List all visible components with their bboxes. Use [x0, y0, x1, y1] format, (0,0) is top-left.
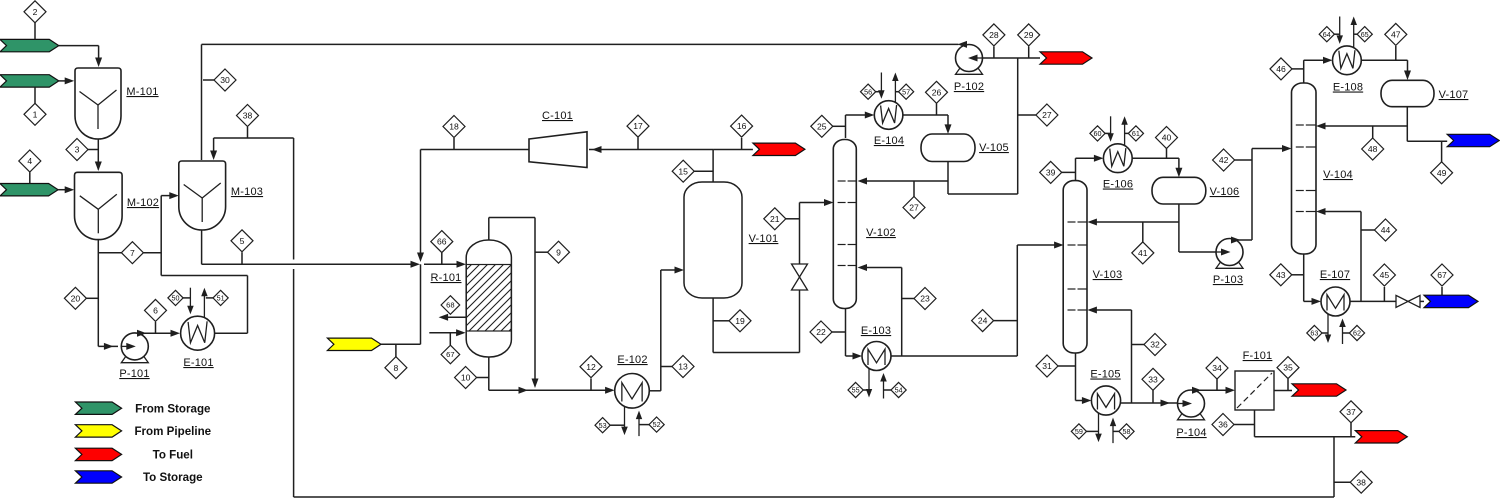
svg-text:E-105: E-105 [1090, 369, 1120, 381]
svg-text:63: 63 [1310, 329, 1318, 338]
pipe reflux to V-102 [862, 180, 948, 182]
stub diamond 51 [206, 297, 213, 299]
node stream-tag 40 [1156, 127, 1178, 149]
pipe V-101 bottoms run [713, 352, 799, 354]
svg-text:37: 37 [1346, 407, 1356, 417]
svg-text:39: 39 [1046, 167, 1056, 177]
node stream-tag 57 [899, 84, 914, 99]
compressor C-101 [529, 132, 587, 168]
svg-text:34: 34 [1212, 363, 1222, 373]
svg-text:E-108: E-108 [1333, 82, 1363, 94]
svg-text:P-104: P-104 [1176, 427, 1206, 439]
node stream-tag 60 [1090, 126, 1105, 141]
node stream-tag 47 [1385, 23, 1407, 45]
svg-text:3: 3 [75, 145, 80, 155]
svg-text:31: 31 [1042, 361, 1052, 371]
node stream-tag 64 [1319, 27, 1334, 42]
svg-text:65: 65 [1361, 30, 1369, 39]
node stream-tag 49 [1431, 162, 1453, 184]
svg-text:R-101: R-101 [431, 272, 462, 284]
stub diamond 20 [86, 297, 98, 299]
node stream-tag 12 [580, 356, 602, 378]
pipe valve riser lower [799, 290, 801, 353]
node stream-tag 42 [1213, 149, 1235, 171]
pipe stream2 to M-101 [59, 45, 99, 47]
mixer M-102 [75, 172, 123, 239]
pipe feed into V-102 [800, 202, 830, 204]
node stream-tag 54 [891, 382, 906, 397]
svg-text:55: 55 [852, 386, 860, 395]
node stream-tag 61 [1128, 126, 1143, 141]
stem diamond 27a [913, 181, 915, 197]
svg-text:E-107: E-107 [1320, 269, 1350, 281]
stub diamond 31 [1058, 365, 1076, 367]
svg-text:42: 42 [1219, 155, 1229, 165]
pipe drop into V-105 [947, 115, 949, 130]
svg-text:59: 59 [1075, 427, 1083, 436]
pipe to P-101 suction [98, 345, 118, 347]
svg-text:58: 58 [1123, 427, 1131, 436]
svg-text:V-105: V-105 [979, 142, 1009, 154]
stub diamond 27b [1018, 114, 1036, 116]
pipe M-101 outlet to M-102 [97, 139, 99, 170]
stub diamond 60 [1105, 132, 1111, 134]
feed arrow stream 1 (From Storage) [0, 75, 59, 87]
node stream-tag 19 [729, 310, 751, 332]
pipe E-101 loop top [161, 275, 247, 277]
svg-text:M-101: M-101 [126, 86, 158, 98]
node stream-tag 6 [145, 299, 167, 321]
stub diamond 32 [1132, 344, 1145, 346]
svg-text:E-101: E-101 [183, 357, 213, 369]
node stream-tag 34 [1206, 357, 1228, 379]
reactor R-101 vessel [466, 240, 511, 357]
pipe pipeline feed riser [420, 264, 422, 344]
pipe V-103 overhead [1075, 158, 1077, 180]
stem diamond 26 [936, 104, 938, 116]
pump P-103 [1216, 262, 1243, 268]
feed arrow stream 4 (From Storage) [0, 184, 58, 196]
svg-text:E-106: E-106 [1103, 179, 1133, 191]
node stream-tag 37 [1340, 401, 1362, 423]
stem diamond 40 [1166, 149, 1168, 159]
node stream-tag 66 [431, 231, 453, 253]
node stream-tag 10 [455, 367, 477, 389]
node stream-tag 56 [861, 84, 876, 99]
drum V-107 [1381, 80, 1434, 106]
stem diamond 66 [441, 253, 443, 264]
stem diamond 12 [590, 379, 592, 391]
stub diamond 23 [902, 298, 915, 300]
pipe recycle-38 riser upper [293, 138, 295, 260]
pipe V-107 liquid down [1406, 107, 1408, 142]
pump P-101 [121, 356, 148, 362]
svg-text:67: 67 [446, 350, 454, 359]
valve [1396, 295, 1408, 307]
node stream-tag 21 [764, 208, 786, 230]
stub diamond 46 [1292, 68, 1304, 70]
svg-text:E-103: E-103 [861, 325, 891, 337]
stub diamond 54 [884, 389, 891, 391]
stub diamond 58 [1113, 430, 1119, 432]
svg-text:9: 9 [556, 247, 561, 257]
node stream-tag 26 [926, 81, 948, 103]
node stream-tag 7 [121, 242, 143, 264]
svg-text:24: 24 [978, 316, 988, 326]
pipe drop into M-101 [98, 46, 100, 64]
node stream-tag 28 [983, 24, 1005, 46]
node stream-tag 29 [1018, 24, 1040, 46]
node stream-tag 20 [64, 287, 86, 309]
svg-text:8: 8 [394, 363, 399, 373]
svg-text:51: 51 [217, 293, 225, 302]
stub diamond 25 [833, 125, 846, 127]
stem diamond 47 [1395, 46, 1397, 60]
stub diamond 64 [1334, 33, 1340, 35]
feed arrow stream 8 (From Pipeline) [327, 338, 381, 350]
mixer M-103 [179, 161, 226, 230]
svg-text:P-101: P-101 [119, 368, 149, 380]
pipe overhead to fuel [713, 149, 753, 151]
pipe E-108 outlet [1361, 59, 1407, 61]
svg-text:47: 47 [1391, 29, 1401, 39]
node stream-tag 38 [1350, 471, 1372, 493]
svg-text:23: 23 [920, 294, 930, 304]
node stream-tag 27 [903, 197, 925, 219]
pipe to fuel stream 37 [1255, 436, 1356, 438]
stub diamond 55 [863, 389, 869, 391]
node stream-tag 30 [214, 69, 236, 91]
svg-text:2: 2 [33, 7, 38, 17]
svg-text:V-102: V-102 [866, 227, 896, 239]
pipe overhead into E-108 [1304, 59, 1328, 61]
node stream-tag 33 [1142, 368, 1164, 390]
node stream-tag 62 [1349, 325, 1364, 340]
pipe V-102 overhead [845, 115, 847, 138]
node stream-tag 18 [443, 116, 465, 138]
node stream-tag 9 [548, 241, 570, 263]
svg-text:27: 27 [909, 203, 919, 213]
pipe into E-105 [1076, 400, 1088, 402]
pipe to storage stream 67 [1420, 300, 1424, 302]
pipe M-102 to M-103 transfer [98, 252, 161, 254]
svg-text:F-101: F-101 [1243, 350, 1273, 362]
stub diamond 30 [203, 79, 214, 81]
pipe E-105 vapor return riser [1131, 310, 1133, 403]
node stream-tag 59 [1071, 424, 1086, 439]
pipe P-102 suction header [982, 57, 1040, 59]
svg-text:36: 36 [1218, 420, 1228, 430]
svg-text:54: 54 [895, 386, 903, 395]
stub diamond 15 [694, 170, 713, 172]
pipe drop into V-107 [1407, 60, 1409, 76]
stem diamond 35 [1287, 379, 1289, 391]
pipe recycle-38 bottom run [294, 496, 1334, 498]
svg-text:21: 21 [770, 214, 780, 224]
pipe E-103 vapor return riser [901, 268, 903, 357]
svg-text:6: 6 [153, 305, 158, 315]
node stream-tag 15 [672, 160, 694, 182]
pipe V-103 bottoms [1075, 353, 1077, 401]
node stream-tag 58 [1119, 424, 1134, 439]
svg-text:27: 27 [1042, 110, 1052, 120]
legend arrow To Fuel [75, 448, 121, 460]
pipe E-106 outlet [1132, 157, 1179, 159]
svg-text:57: 57 [902, 87, 910, 96]
node stream-tag 53 [595, 418, 610, 433]
stub diamond 63 [1322, 332, 1328, 334]
pipe to P-103 suction [1179, 251, 1217, 253]
node stream-tag 17 [627, 115, 649, 137]
stem diamond 17 [637, 138, 639, 150]
pipe M-103 bottoms down [201, 230, 203, 264]
svg-text:52: 52 [653, 420, 661, 429]
svg-text:26: 26 [932, 87, 942, 97]
pipe M-102 bottoms down [97, 240, 99, 347]
svg-text:E-102: E-102 [617, 354, 647, 366]
stub diamond 61 [1125, 132, 1129, 134]
heat exchanger E-102 [624, 406, 626, 432]
svg-text:From Storage: From Storage [135, 402, 211, 415]
reboiler E-103 [868, 369, 870, 395]
svg-text:61: 61 [1132, 129, 1140, 138]
stem diamond 8 [395, 344, 397, 357]
node stream-tag 51 [213, 290, 228, 305]
stem diamond 38 [247, 127, 249, 138]
stub diamond 24 [994, 320, 1018, 322]
node stream-tag 55 [848, 382, 863, 397]
svg-text:68: 68 [446, 301, 454, 310]
svg-text:48: 48 [1368, 144, 1378, 154]
stub diamond 44 [1361, 229, 1375, 231]
pipe into E-103 [846, 355, 859, 357]
pipe E-104 outlet [903, 114, 948, 116]
svg-text:V-103: V-103 [1093, 269, 1123, 281]
stub diamond 3 [88, 149, 98, 151]
stem diamond 41 [1142, 222, 1144, 242]
pipe vapor return to V-104 [1321, 211, 1362, 213]
node stream-tag 50 [168, 290, 183, 305]
svg-text:18: 18 [449, 122, 459, 132]
product arrow stream 35 (To Fuel) [1292, 384, 1346, 396]
pump P-104 [1178, 414, 1205, 420]
svg-text:V-107: V-107 [1439, 89, 1469, 101]
pipe feed into V-104 [1252, 148, 1287, 150]
pipe R-101 bypass drop [534, 218, 536, 385]
node stream-tag 2 [24, 1, 46, 23]
svg-text:33: 33 [1148, 374, 1158, 384]
pipe F-101 bottoms [1254, 410, 1256, 437]
stem diamond 67b [1441, 287, 1443, 296]
pipe E-102 outlet [649, 390, 661, 392]
legend arrow To Storage [75, 471, 121, 483]
stub diamond 42 [1235, 159, 1252, 161]
legend arrow From Storage [75, 402, 121, 414]
node stream-tag 48 [1362, 138, 1384, 160]
svg-text:V-104: V-104 [1323, 169, 1353, 181]
product arrow stream 37 (To Fuel) [1355, 431, 1407, 443]
svg-text:62: 62 [1353, 329, 1361, 338]
stub diamond 50 [183, 297, 190, 299]
svg-text:10: 10 [461, 373, 471, 383]
pipe product to storage 49 [1407, 140, 1447, 142]
svg-text:From Pipeline: From Pipeline [134, 425, 211, 438]
node stream-tag 4 [19, 150, 41, 172]
svg-text:28: 28 [989, 30, 999, 40]
stub diamond 62 [1343, 332, 1350, 334]
feed arrow stream 2 (From Storage) [0, 39, 59, 51]
product arrow stream 49 (To Storage) [1447, 134, 1499, 146]
svg-text:M-102: M-102 [127, 197, 159, 209]
stem diamond 18 [453, 138, 455, 150]
stem diamond 45 [1383, 287, 1385, 301]
product arrow stream 16 (To Fuel) [753, 143, 805, 155]
vessel V-101 [684, 182, 742, 298]
svg-text:P-103: P-103 [1213, 274, 1243, 286]
svg-text:To Storage: To Storage [143, 471, 203, 484]
pipe P-104 discharge to F-101 [1195, 389, 1231, 391]
pipe V-105 liquid down [947, 162, 949, 195]
node stream-tag 67 [1431, 264, 1453, 286]
stub diamond 52 [639, 424, 649, 426]
pipe reactor feed header [202, 263, 414, 265]
pipe R-101 overhead run [489, 217, 535, 219]
stub diamond 43 [1292, 274, 1304, 276]
svg-text:56: 56 [864, 87, 872, 96]
node stream-tag 38 [237, 105, 259, 127]
svg-text:46: 46 [1276, 64, 1286, 74]
pipe into M-103 side [161, 195, 176, 197]
pipe reflux to V-103 [1092, 221, 1179, 223]
product arrow stream 67 (To Storage) [1424, 295, 1478, 307]
node stream-tag 27 [1036, 104, 1058, 126]
stem diamond 6 [155, 322, 157, 333]
pipe F-101 product [1274, 390, 1292, 392]
stub diamond 19 [713, 320, 729, 322]
svg-text:35: 35 [1283, 363, 1293, 373]
stem diamond 5 [241, 252, 243, 263]
pipe P-102 recycle drop into M-103 [201, 44, 203, 160]
pipe riser into M-103 [160, 196, 162, 276]
pipe E-103 outlet [891, 355, 1017, 357]
node stream-tag 63 [1307, 325, 1322, 340]
reboiler E-105 [1098, 413, 1100, 439]
svg-text:29: 29 [1024, 30, 1034, 40]
pipe V-102 bottoms [845, 308, 847, 356]
node stream-tag 39 [1040, 161, 1062, 183]
svg-text:41: 41 [1138, 248, 1148, 258]
pipe riser to V-101 [660, 270, 662, 391]
svg-text:38: 38 [243, 111, 253, 121]
pipe overhead into E-104 [846, 114, 871, 116]
pipe E-107 vapor return riser [1360, 212, 1362, 302]
pipe into V-101 [661, 269, 680, 271]
stub diamond 39 [1058, 171, 1076, 173]
svg-text:7: 7 [130, 248, 135, 258]
stub diamond 21 [786, 218, 800, 220]
pipe drop into V-106 [1178, 158, 1180, 173]
svg-text:64: 64 [1323, 30, 1331, 39]
svg-text:To Fuel: To Fuel [153, 449, 193, 462]
pipe V-101 overhead to C-101 [589, 149, 713, 151]
svg-text:1: 1 [33, 109, 38, 119]
pipe valve riser upper [799, 203, 801, 265]
svg-text:45: 45 [1380, 270, 1390, 280]
stub diamond 53 [610, 424, 624, 426]
stub diamond 13 [661, 366, 672, 368]
svg-text:17: 17 [633, 121, 643, 131]
pipe V-104 feed riser [1251, 149, 1253, 241]
pipe reflux to V-104 [1321, 125, 1408, 127]
pipe pipeline feed [381, 343, 421, 345]
svg-text:5: 5 [240, 236, 245, 246]
heat exchanger E-108 [1339, 17, 1341, 36]
pipe V-104 bottoms [1303, 254, 1305, 301]
svg-text:50: 50 [172, 293, 180, 302]
stem diamond 49 [1441, 141, 1443, 162]
stem diamond 33 [1152, 391, 1154, 404]
pipe stream4 into M-102 [58, 189, 66, 191]
pipe R-101 bottoms [488, 357, 490, 390]
node stream-tag 8 [385, 357, 407, 379]
node stream-tag 65 [1357, 27, 1372, 42]
svg-text:V-106: V-106 [1210, 186, 1240, 198]
heat exchanger E-106 [1110, 116, 1112, 134]
pipe V-106 liquid down [1178, 204, 1180, 252]
stem diamond 34 [1216, 379, 1218, 390]
node stream-tag 23 [914, 288, 936, 310]
svg-text:22: 22 [816, 327, 826, 337]
svg-text:32: 32 [1150, 340, 1160, 350]
node stream-tag 67 [441, 345, 460, 364]
stub diamond 65 [1354, 33, 1358, 35]
pipe feed into V-103 [1017, 244, 1059, 246]
node stream-tag 68 [441, 296, 460, 315]
svg-text:20: 20 [71, 293, 81, 303]
filter F-101 [1235, 371, 1274, 410]
valve [792, 264, 808, 277]
pipe E-107 outlet [1350, 300, 1396, 302]
svg-text:M-103: M-103 [231, 186, 263, 198]
stub diamond 36 [1234, 424, 1255, 426]
svg-text:40: 40 [1162, 133, 1172, 143]
svg-text:49: 49 [1437, 168, 1447, 178]
pipe recycle-38 riser lower [293, 269, 295, 497]
svg-text:12: 12 [586, 362, 596, 372]
pipe P-101 discharge to E-101 [140, 332, 176, 334]
svg-text:53: 53 [599, 421, 607, 430]
stem diamond 4 [29, 172, 31, 183]
column V-102 [833, 140, 856, 309]
reboiler E-107 [1327, 314, 1329, 340]
svg-text:30: 30 [220, 75, 230, 85]
svg-text:19: 19 [735, 316, 745, 326]
stem diamond 37 [1350, 423, 1352, 437]
pipe vapor return to V-103 [1092, 309, 1132, 311]
svg-text:15: 15 [678, 166, 688, 176]
node stream-tag 25 [811, 115, 833, 137]
pipe vapor return to V-102 [862, 267, 902, 269]
stub diamond 59 [1087, 430, 1099, 432]
heat exchanger E-104 [880, 73, 882, 91]
pipe recycle-38 drop into M-103 [213, 138, 215, 157]
pipe recycle-38 drop [1333, 437, 1335, 497]
drum V-106 [1152, 177, 1206, 204]
pipe V-105 liquid run [948, 193, 1018, 195]
node stream-tag 41 [1132, 242, 1154, 264]
pipe quench outlet 68 [444, 316, 466, 318]
pipe overhead into E-106 [1076, 157, 1100, 159]
